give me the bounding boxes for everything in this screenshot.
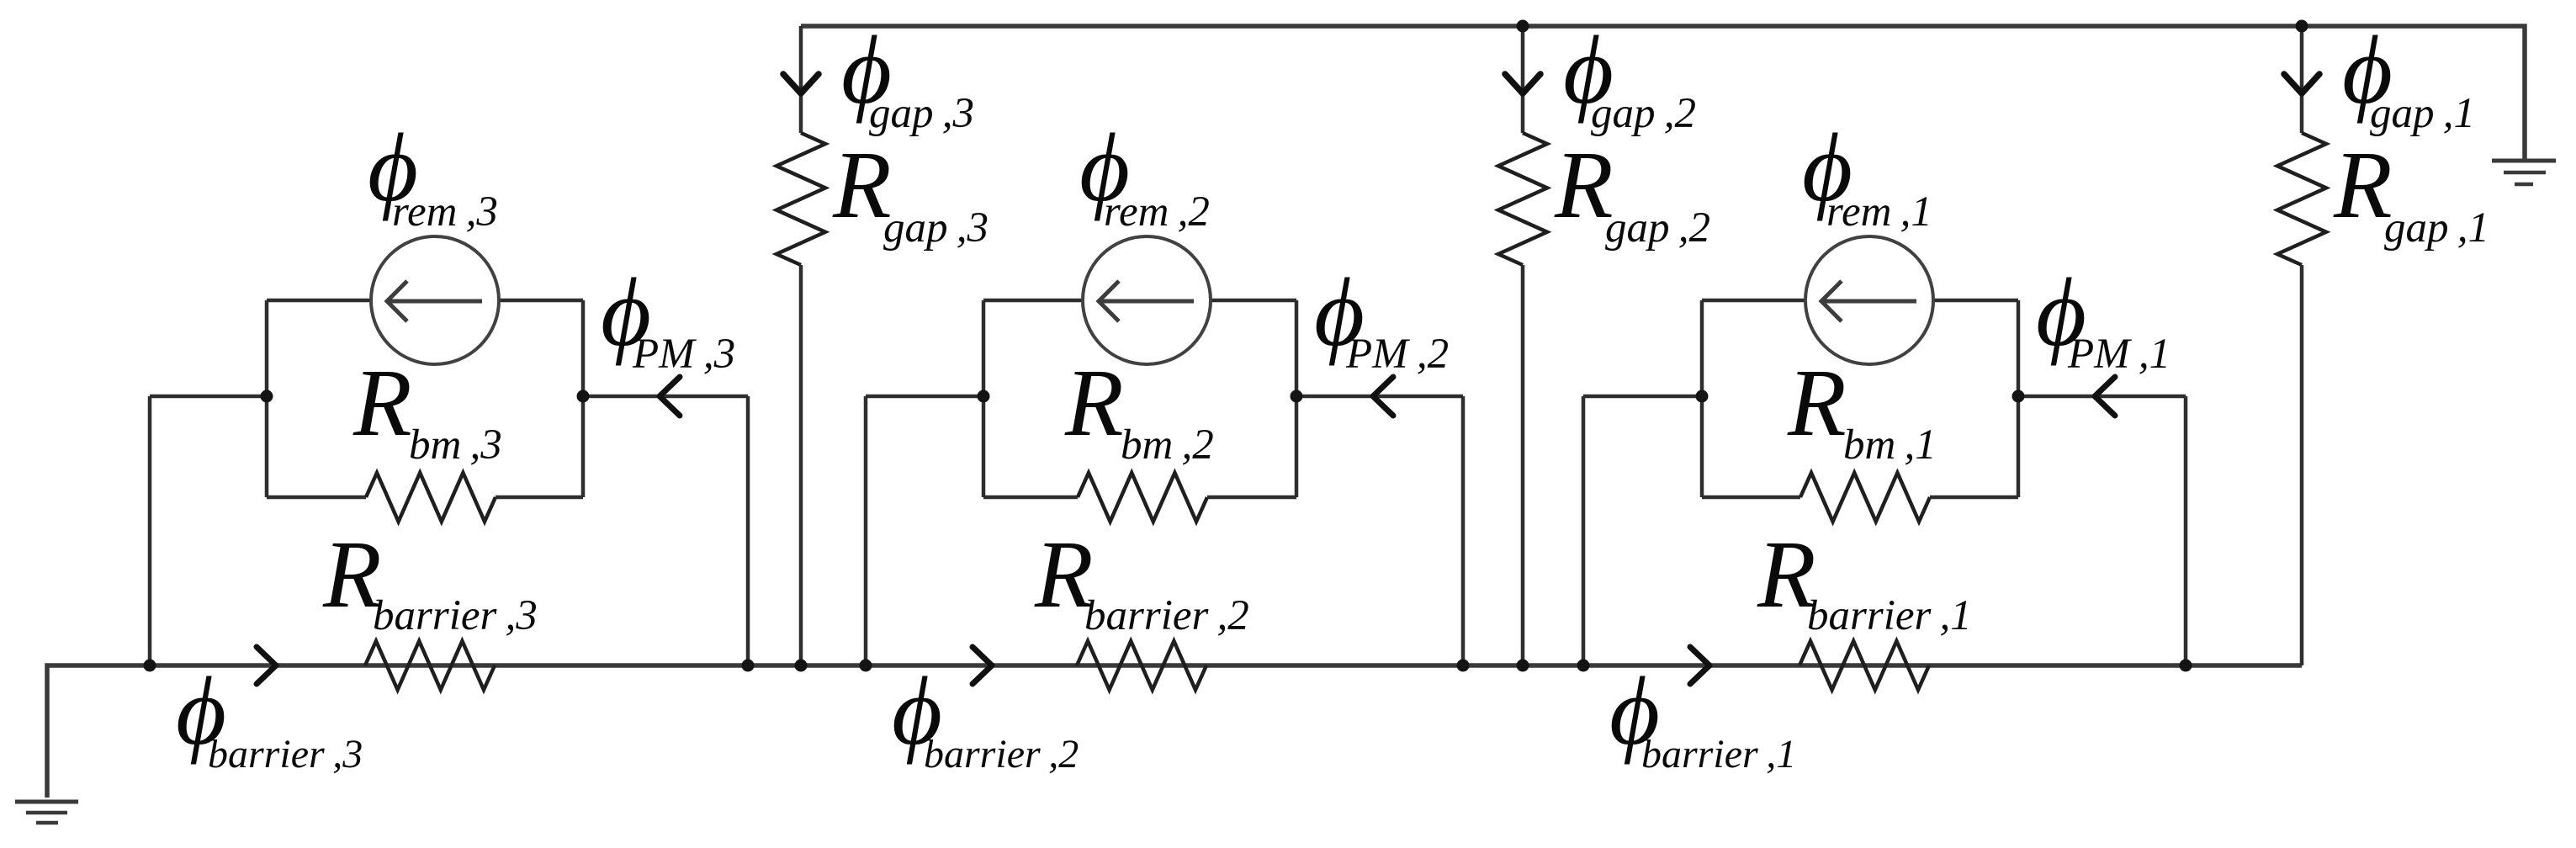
node: gap line on bus 2 [1517, 660, 1529, 672]
svg-text:PM ,2: PM ,2 [1345, 331, 1449, 378]
resistor R_gap,2 [1498, 133, 1547, 265]
svg-text:rem ,2: rem ,2 [1104, 188, 1210, 236]
svg-text:gap ,2: gap ,2 [1591, 90, 1696, 137]
resistor R_gap,3 [777, 133, 825, 265]
flux source phi_rem,2 [1083, 236, 1211, 364]
flux source phi_rem,1 [1805, 236, 1933, 364]
resistor R_bm,2 [1078, 473, 1207, 522]
wire: mid rail right (phi_PM,2) [1296, 395, 1463, 399]
wire: right riser 3 [746, 396, 750, 665]
svg-text:bm ,3: bm ,3 [409, 421, 502, 469]
arrow: flux down gap 1 [2284, 74, 2319, 93]
node: gap line on bus 3 [795, 660, 808, 672]
wire: loop top rail 3 [267, 299, 583, 303]
svg-text:R: R [352, 349, 412, 456]
node: gap line on top bus 2 [1517, 20, 1529, 33]
node: loop-left junction 1 [1696, 390, 1709, 403]
resistor R_barrier,2 [1077, 641, 1206, 690]
svg-text:barrier ,2: barrier ,2 [924, 732, 1079, 776]
arrow: phi_PM,2 left [1373, 377, 1393, 416]
node: left riser on bus 3 [144, 660, 156, 672]
wire: loop top rail 2 [983, 299, 1296, 303]
svg-text:gap ,3: gap ,3 [869, 90, 974, 137]
svg-text:rem ,3: rem ,3 [392, 188, 498, 236]
wire: left riser 3 [148, 396, 152, 665]
wire: gap branch vertical 2 [1521, 26, 1525, 133]
wire: mid rail right (phi_PM,3) [583, 395, 748, 399]
svg-text:barrier ,2: barrier ,2 [1084, 592, 1249, 639]
svg-text:R: R [1064, 349, 1124, 456]
svg-text:barrier ,1: barrier ,1 [1807, 592, 1972, 639]
svg-text:gap ,3: gap ,3 [883, 204, 989, 252]
node: right riser on bus 3 [742, 660, 755, 672]
arrow: phi_barrier,1 right [1690, 647, 1709, 684]
wire: loop top rail 1 [1702, 299, 2018, 303]
arrow: phi_PM,3 left [660, 377, 680, 416]
node: loop-left junction 3 [261, 390, 273, 403]
svg-text:gap ,1: gap ,1 [2384, 204, 2489, 252]
wire: loop right vertical 3 [581, 300, 586, 497]
wire: gap branch lower 2 [1521, 265, 1525, 665]
wire: left riser 2 [864, 396, 868, 665]
svg-text:PM ,3: PM ,3 [632, 331, 735, 378]
resistor R_gap,1 [2277, 133, 2326, 265]
wire: loop right vertical 1 [2017, 300, 2021, 497]
wire: loop bottom left 1 [1702, 496, 1800, 500]
svg-text:barrier ,3: barrier ,3 [208, 732, 363, 776]
wire: right riser 2 [1461, 396, 1466, 665]
svg-text:bm ,2: bm ,2 [1121, 421, 1214, 469]
node: loop-right junction 2 [1291, 390, 1303, 403]
node: right riser on bus 1 [2180, 660, 2192, 672]
wire: gap branch vertical 3 [799, 26, 803, 133]
svg-text:gap ,1: gap ,1 [2370, 90, 2475, 137]
wire: loop bottom left 3 [267, 496, 366, 500]
wire: left riser 1 [1582, 396, 1586, 665]
svg-text:gap ,2: gap ,2 [1605, 204, 1710, 252]
wire: mid rail right (phi_PM,1) [2018, 395, 2186, 399]
arrow: flux down gap 2 [1505, 74, 1540, 93]
wire: loop left vertical 3 [265, 300, 269, 497]
wire: mid rail left 1 [1583, 395, 1702, 399]
arrow: phi_PM,1 left [2095, 377, 2115, 416]
wire: loop bottom left 2 [983, 496, 1078, 500]
arrow: flux down gap 3 [783, 74, 819, 93]
svg-text:barrier ,1: barrier ,1 [1641, 732, 1796, 776]
node: right riser on bus 2 [1457, 660, 1470, 672]
wire: top bus [801, 26, 2525, 161]
svg-text:rem ,1: rem ,1 [1826, 188, 1932, 236]
wire: right riser 1 [2184, 396, 2188, 665]
node: left riser on bus 2 [860, 660, 872, 672]
ground (left, bottom node reference) [15, 800, 78, 804]
flux source phi_rem,3 [371, 236, 499, 364]
node: gap line on top bus 1 [2296, 20, 2308, 33]
ground (right, top node reference) [2492, 159, 2556, 163]
resistor R_barrier,1 [1799, 641, 1929, 690]
wire: loop bottom right 3 [496, 496, 583, 500]
wire: loop left vertical 2 [982, 300, 986, 497]
wire: mid rail left 3 [150, 395, 267, 399]
wire: mid rail left 2 [866, 395, 983, 399]
wire: loop right vertical 2 [1295, 300, 1299, 497]
wire: gap branch vertical 1 [2300, 26, 2304, 133]
resistor R_bm,1 [1800, 473, 1930, 522]
node: left riser on bus 1 [1577, 660, 1590, 672]
svg-text:R: R [1787, 349, 1847, 456]
wire: loop bottom right 2 [1207, 496, 1296, 500]
wire: loop bottom right 1 [1930, 496, 2018, 500]
arrow: phi_barrier,3 right [257, 647, 276, 684]
svg-text:PM ,1: PM ,1 [2067, 331, 2171, 378]
svg-text:bm ,1: bm ,1 [1843, 421, 1937, 469]
wire: gap branch lower 1 [2300, 265, 2304, 665]
arrow: phi_barrier,2 right [973, 647, 992, 684]
resistor R_bm,3 [366, 473, 496, 522]
node: loop-right junction 3 [577, 390, 590, 403]
wire: gap branch lower 3 [799, 265, 803, 665]
node: loop-right junction 1 [2012, 390, 2025, 403]
wire: bottom bus [47, 665, 2302, 798]
wire: loop left vertical 1 [1700, 300, 1704, 497]
svg-text:barrier ,3: barrier ,3 [373, 592, 538, 639]
resistor R_barrier,3 [365, 641, 495, 690]
node: loop-left junction 2 [978, 390, 990, 403]
